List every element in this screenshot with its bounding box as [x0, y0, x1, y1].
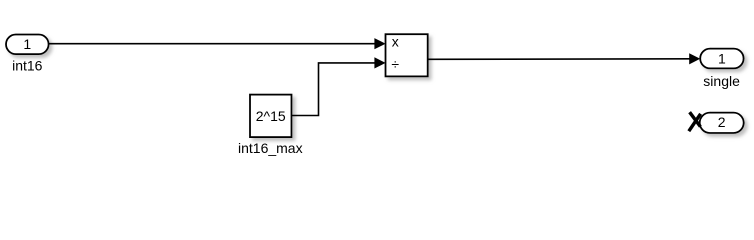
svg-text:÷: ÷: [391, 56, 399, 72]
arrowhead at outport 1: [689, 53, 700, 64]
svg-text:int16_max: int16_max: [238, 140, 303, 156]
arrowhead at divide input 2: [374, 57, 385, 68]
wire inport to divide input 1: [49, 43, 376, 45]
svg-text:1: 1: [23, 36, 31, 52]
divide block U1: [386, 34, 428, 76]
svg-text:2: 2: [718, 114, 726, 130]
unconnected port X mark: [689, 112, 701, 131]
constant block 2^15: [250, 95, 292, 138]
arrowhead at divide input 1: [374, 38, 385, 49]
wire divide output to outport 1: [428, 58, 690, 61]
svg-text:x: x: [392, 34, 399, 50]
wire constant to divide input 2: [292, 63, 376, 116]
outport Out2 (unconnected): [700, 113, 744, 133]
svg-text:int16: int16: [12, 58, 43, 74]
svg-text:1: 1: [718, 50, 726, 66]
outport Out1 (single): [700, 49, 743, 69]
inport In1 (int16): [6, 35, 49, 55]
svg-text:2^15: 2^15: [256, 108, 286, 124]
svg-text:single: single: [703, 73, 740, 89]
